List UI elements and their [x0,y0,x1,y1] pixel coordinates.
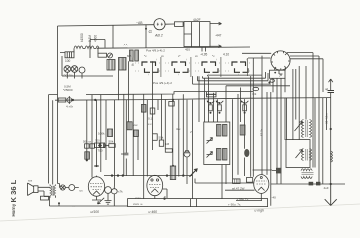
svg-text:Horny: Horny [11,203,16,216]
wire stair lines [193,72,271,84]
ground arrow GND1 [325,184,337,206]
switch bank contacts [133,57,250,77]
dark comp S1 [253,168,282,174]
coil L_b1 hatched [107,60,115,71]
svg-text:Pos 4/9.(+4).2: Pos 4/9.(+4).2 [146,49,165,53]
wire comp row [58,184,79,207]
junction dot right [330,128,332,130]
resistor R3 hatched [127,122,132,130]
wire V4 leads [155,175,167,198]
resistor R14 pair [95,139,105,148]
svg-text:x.x: x.x [148,122,152,126]
capacitor C3 [185,151,189,153]
wire V2 left feeds [242,53,271,91]
socket X3 [79,67,85,73]
svg-text:*25000: *25000 [63,88,73,92]
tube V3 [88,177,104,197]
bottom bus right [271,183,345,185]
svg-text:x*: x* [178,54,181,58]
wire V5 area [195,179,262,201]
wire after V1 [165,23,174,25]
coil arrow A2 [295,122,303,132]
socket X1 [64,66,71,73]
svg-text:*x: *x [212,54,215,58]
resistor R_in [98,53,107,57]
coil L_r2 [302,149,312,161]
svg-text:4xx: 4xx [176,127,181,131]
svg-text:AB 2: AB 2 [154,34,163,38]
V3 top lead [96,176,98,177]
IF trimmer T1 [207,138,213,144]
coil arrow A3 [296,150,303,159]
resistor R7 [165,149,172,152]
HT arrow up [329,79,333,87]
junction dot R8 top [172,165,174,167]
output transformer T_o [50,186,56,196]
heater dots [111,174,185,176]
svg-text:4500: 4500 [94,35,98,42]
resistor R11 [246,178,252,183]
comp X4 [60,185,65,190]
grid cap circle [105,187,112,194]
wire mid verticals group2 [129,61,184,198]
svg-text:k1500: k1500 [80,33,84,42]
coil L_r1 [302,120,312,138]
svg-text:xx: xx [161,54,164,58]
small comp at 95-166 [94,165,99,167]
feedthrough F1 [67,96,72,104]
resistor R6 [159,140,163,146]
junction dots V2 [268,81,270,83]
wire block bottom [62,56,113,79]
small box under speaker [41,196,49,200]
switch bank top line [97,47,250,48]
svg-text:-447: -447 [215,34,222,38]
svg-text:+ 90u. 7x.: + 90u. 7x. [228,202,241,206]
coil small C_s1 [130,50,134,61]
svg-text:700: 700 [95,139,100,143]
svg-text:*x: *x [144,54,147,58]
comp circle small [69,185,75,191]
volume arrow A4 [98,198,105,204]
capacitor C_ht [328,87,335,98]
svg-text:4.+0r: 4.+0r [66,105,73,109]
wire bus A [86,92,253,95]
scan fold streak [0,204,360,221]
svg-text:50k xx: 50k xx [83,140,92,144]
svg-text:4uF: 4uF [324,186,329,190]
trimmer circle [108,53,113,58]
svg-text:ux: ux [80,189,84,193]
svg-text:700: 700 [98,149,103,153]
brand text Horny [11,203,16,216]
electrolytic E2 [111,187,117,207]
svg-text:x7k: x7k [118,190,123,194]
svg-text:xxx: xxx [28,179,33,183]
svg-text:4.10: 4.10 [223,53,229,57]
svg-text:1M: 1M [165,142,170,146]
brand text K 36 L [9,179,18,202]
svg-text:50k: 50k [109,140,114,144]
svg-text:~AB: ~AB [136,21,143,25]
svg-text:-40: -40 [272,196,277,200]
svg-text:u 460: u 460 [149,210,158,214]
coil L_r4 on vertical [331,151,333,162]
svg-text:30-4,5m: 30-4,5m [325,113,329,124]
wire V1 grid down [145,24,147,47]
resistor R13 hatched [85,152,90,159]
svg-text:100: 100 [65,59,71,63]
switch blobs [309,182,321,186]
junction dot bus2 [94,99,96,101]
wire V2 yoke box [270,67,286,98]
small text scatter mid [135,122,193,200]
tube V1 indicator [154,19,165,30]
svg-text:PO RA: PO RA [64,74,73,78]
antenna arrow 2 [210,45,222,48]
svg-text:50k: 50k [159,136,164,140]
wire coil leads [60,49,98,54]
junction dot under V1 [145,28,147,30]
resistor R_b1 on bus [58,98,66,102]
svg-text:u/100: u/100 [91,210,100,214]
svg-text:xx: xx [195,54,198,58]
svg-text:-4,95: -4,95 [200,53,207,57]
heater bus [104,175,192,177]
wire bus B [55,98,331,101]
component blob E1 [244,149,249,157]
junction dot 96 [95,165,97,167]
wire right verticals [271,92,331,206]
resistor R8 hatched [170,166,175,180]
transformer block T_ant [184,22,210,52]
junction dot bus right [330,183,332,185]
resistor R4 hatched [134,130,139,137]
circle comp D1 [184,151,190,157]
feedthrough oval V2 [270,79,274,82]
right coil box [286,140,310,168]
svg-text:455: 455 [185,48,190,52]
wire nest right [287,53,323,184]
svg-text:xxx: xxx [133,123,138,127]
ground GND2 [105,193,112,204]
dip box on bus A [207,92,217,95]
wire mid verticals group3 [187,75,267,199]
capacitor C1 [98,144,109,148]
svg-text:6: 6 [132,62,135,67]
svg-text:57 7x: 57 7x [260,128,264,136]
choke stack K1 [207,101,214,114]
antenna arrow 1 [210,22,222,25]
coil L_b2 hatched [119,58,127,71]
IF can box [204,122,230,165]
wire left verticals [49,95,58,185]
svg-text:.*.*.: .*.*. [123,43,128,47]
wire nest low [226,86,290,122]
junction blob bus [72,99,74,101]
svg-text:Pos 4/9.(+4).2: Pos 4/9.(+4).2 [153,81,172,85]
svg-text:4A2F: 4A2F [193,18,201,22]
svg-text:u mgh: u mgh [255,209,265,213]
svg-text:x*: x* [190,130,193,134]
bottom channel box [128,199,268,207]
speaker wires [38,185,56,207]
svg-text:xxxx .u.: xxxx .u. [133,202,143,206]
tube V4 [147,175,163,195]
capacitor C2 [121,153,128,155]
junction dot 87 [86,159,88,161]
wire V3 bottom [92,196,101,200]
resistor R15 [141,105,146,113]
svg-text:0,1: 0,1 [148,117,153,121]
svg-text:xxxx: xxxx [135,196,141,200]
resistor R5 [153,134,158,141]
tube V2 [271,51,290,70]
wire left border [57,26,59,100]
IF coil L_if2 [217,149,227,161]
oval component O1 [253,87,259,90]
wire top line [58,25,155,26]
coil small C_s2 [135,50,139,61]
resistor R10 [233,179,240,184]
svg-text:wf.47 2W: wf.47 2W [232,187,245,191]
svg-text:~~: ~~ [72,204,76,208]
bottom bus left [50,205,128,207]
wire inner top-left block [90,26,113,59]
IF trimmer T2 [207,152,213,158]
tube V5 [254,175,269,194]
junction dot midbus [172,99,174,101]
svg-text:P: P [280,74,283,78]
junction dot comp [58,202,60,204]
resistor R12 pair [83,140,94,149]
comp small box mid [169,102,174,107]
speaker [28,183,39,196]
choke stack K3 [241,101,248,114]
svg-text:K 36 L: K 36 L [9,179,18,202]
svg-text:100k: 100k [98,132,105,136]
resistor R9 hatched [240,125,245,135]
svg-text:qd: qd [325,87,329,91]
wire mid verticals group1 [87,70,127,186]
coil L_r3 horizontal [301,169,314,179]
svg-text:G: G [149,29,153,34]
small text scatter top [127,54,215,58]
capacitor C4 [150,108,155,114]
junction dot V4 [163,198,165,200]
resistor R1 [108,129,113,137]
choke stack K2 [216,101,223,114]
resistor R_top [175,22,184,27]
tuning arrow A1 [190,168,198,177]
svg-text:MB: MB [127,54,131,58]
IF coil L_if1 [217,125,227,137]
coil L_ant wavy [74,46,99,49]
socket X2 [71,66,78,73]
jack J1 [65,52,74,58]
resistor R2 [109,144,115,148]
